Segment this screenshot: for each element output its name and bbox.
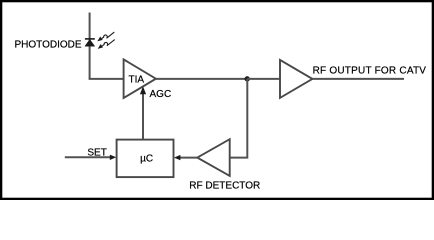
svg-text:RF DETECTOR: RF DETECTOR bbox=[189, 181, 260, 192]
amplifier RF detector bbox=[197, 139, 229, 176]
wire RF output bbox=[312, 78, 404, 80]
amplifier RF output bbox=[280, 60, 312, 98]
light arrow 1 bbox=[97, 32, 114, 41]
wire photodiode vertical bbox=[89, 13, 91, 79]
photodiode bbox=[85, 39, 95, 46]
op-amp TIA bbox=[124, 59, 156, 98]
wire node to RF amp bbox=[247, 78, 280, 80]
wire RF detector to uC with arrowhead bbox=[174, 155, 197, 160]
wire photodiode to TIA input bbox=[89, 78, 125, 80]
svg-text:PHOTODIODE: PHOTODIODE bbox=[15, 39, 82, 50]
node junction bbox=[245, 76, 250, 81]
light arrow 2 bbox=[98, 40, 115, 49]
svg-text:RF OUTPUT FOR CATV: RF OUTPUT FOR CATV bbox=[313, 65, 427, 76]
AGC arrow into TIA bbox=[140, 86, 146, 139]
svg-text:SET: SET bbox=[87, 148, 106, 159]
wire SET input with arrowhead bbox=[65, 155, 116, 160]
svg-text:AGC: AGC bbox=[150, 89, 172, 100]
wire TIA output to node bbox=[156, 78, 248, 80]
svg-text:TIA: TIA bbox=[129, 75, 145, 86]
microcontroller uC box bbox=[117, 140, 174, 178]
wire node down to RF detector bbox=[230, 79, 247, 158]
svg-text:µC: µC bbox=[140, 154, 153, 165]
